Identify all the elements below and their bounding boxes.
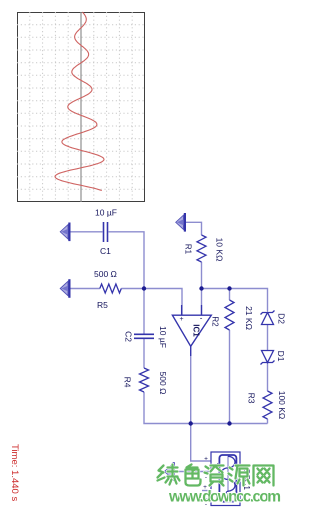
- ground terminal at C1: [60, 223, 69, 242]
- watermark CJK glyph blocks: [158, 465, 274, 486]
- wire osc B+ stub: [202, 490, 211, 492]
- wire osc B- stub: [201, 498, 211, 500]
- scope waveform trace: [55, 12, 104, 191]
- zener diode D2: [261, 311, 275, 325]
- wire op-amp output down: [191, 346, 211, 461]
- scope time axis: [80, 12, 82, 202]
- wire R5 to plus-input corner: [121, 289, 182, 316]
- wire minus node to minus input: [201, 289, 203, 316]
- capacitor C2: [134, 334, 154, 338]
- svg-text:R3: R3: [247, 393, 257, 404]
- node dot R2 bottom bus: [227, 421, 231, 425]
- svg-text:R4: R4: [123, 377, 133, 388]
- oscilloscope OSC1 body: [211, 452, 240, 506]
- wire R5 terminal to R5: [68, 288, 100, 290]
- svg-text:21 KΩ: 21 KΩ: [244, 306, 254, 330]
- svg-text:-: -: [205, 474, 207, 481]
- svg-text:R5: R5: [97, 300, 108, 310]
- svg-text:R1: R1: [184, 244, 193, 255]
- wire node column through C2 R4 to bottom bus: [143, 286, 145, 334]
- wire R3 to bus: [267, 419, 269, 424]
- resistor R1: [197, 235, 206, 262]
- wire C1 terminal to C1: [68, 231, 103, 233]
- resistor R5: [100, 284, 122, 293]
- OSC1 screen trace: [221, 456, 235, 500]
- wire osc ground to A- pin: [174, 471, 211, 473]
- svg-text:Time: 1.440 s: Time: 1.440 s: [9, 444, 20, 501]
- zener diode D1: [261, 351, 275, 365]
- node dot C-R column / R5: [142, 286, 146, 290]
- svg-text:10 KΩ: 10 KΩ: [215, 238, 225, 262]
- svg-text:R2: R2: [211, 316, 220, 327]
- svg-text:10 µF: 10 µF: [158, 326, 168, 348]
- capacitor C1: [104, 222, 108, 242]
- svg-text:C1: C1: [100, 246, 111, 256]
- svg-text:www.downcc.com: www.downcc.com: [168, 489, 281, 506]
- wire C1 to node column: [109, 232, 145, 286]
- ground terminal at OSC1: [165, 462, 174, 481]
- svg-text:D1: D1: [276, 351, 286, 362]
- wire D2 to D1: [267, 325, 269, 350]
- svg-text:D2: D2: [277, 313, 287, 324]
- resistor R3: [263, 391, 272, 419]
- node dot R1 / feedback: [199, 286, 203, 290]
- svg-text:100 KΩ: 100 KΩ: [277, 391, 287, 420]
- svg-text:10 µF: 10 µF: [95, 208, 117, 218]
- wire R1 to minus node: [201, 262, 203, 289]
- svg-text:+: +: [180, 316, 184, 323]
- op-amp input pin stubs: [182, 305, 202, 356]
- OSC1 screen axis: [227, 456, 229, 501]
- resistor R4: [140, 368, 149, 392]
- wire D1 to R3: [267, 363, 269, 391]
- svg-text:IC1: IC1: [192, 324, 201, 337]
- svg-text:500 Ω: 500 Ω: [94, 269, 117, 279]
- svg-text:C2: C2: [124, 331, 134, 342]
- svg-text:+: +: [204, 456, 208, 463]
- node dot output bus: [189, 421, 193, 425]
- scope graph frame: [18, 13, 145, 202]
- svg-text:-: -: [200, 314, 203, 323]
- wire feedback top rail: [202, 289, 268, 312]
- ground terminal at R5: [60, 279, 69, 298]
- op-amp IC1: [172, 315, 211, 346]
- resistor R2: [225, 300, 234, 330]
- wire R2 bottom to bus: [229, 330, 231, 424]
- wire R1 terminal to R1: [184, 222, 202, 235]
- svg-text:500 Ω: 500 Ω: [158, 372, 168, 395]
- OSC1 screen: [219, 455, 236, 502]
- node dot R2 top: [227, 286, 231, 290]
- scope grid: [17, 12, 145, 202]
- wire R2 top: [229, 289, 231, 301]
- ground terminal at R1: [176, 213, 185, 232]
